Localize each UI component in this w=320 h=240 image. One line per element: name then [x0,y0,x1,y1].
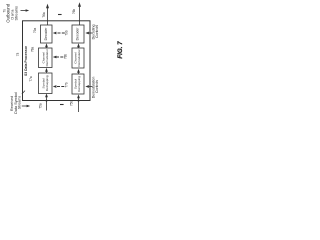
wire R1 output up [79,6,81,25]
wire decoding controls into R1 [89,32,93,34]
svg-text:Demodulator: Demodulator [45,49,49,66]
arrowhead input L [45,93,48,97]
wire demodulation controls into R3 [89,86,93,88]
svg-text:79a: 79a [33,28,37,34]
dashed wire R3 to L3 [57,86,64,88]
arrowhead input R [77,94,80,98]
dashed wire R1 to L1 [58,32,65,34]
svg-text:Demapping: Demapping [45,75,49,91]
block L1 Decoder [41,25,53,43]
arrowhead R2-R1 [77,43,80,47]
svg-text:Streams: Streams [13,6,18,21]
block R2 Channel Demodulator [72,48,84,68]
svg-text:73: 73 [16,53,20,57]
dashed wire R2 to L2 [56,56,63,58]
wire L1 output up [47,8,49,26]
svg-text:Streams: Streams [17,96,21,110]
svg-text:Decoder: Decoder [44,27,48,41]
svg-text:76a: 76a [42,12,46,18]
wire L3 to L2 [46,71,48,73]
wire input left branch [46,97,48,111]
dash ref bottom [60,104,64,106]
arrowhead controls R1 [85,32,89,35]
junction dot left input [46,100,48,102]
arrowhead controls R3 [85,85,89,88]
wire R3 to R2 [78,72,80,74]
arrowhead up L output [46,4,49,9]
svg-text:Controls: Controls [95,25,99,38]
svg-text:FIG. 7: FIG. 7 [117,41,124,59]
block R3 Symbol Demapping [72,74,84,94]
svg-text:Controls: Controls [95,80,99,93]
wire received arrow [22,105,27,107]
svg-text:Decoder: Decoder [76,27,80,41]
arrowhead into L2 [53,56,57,59]
svg-text:77b: 77b [65,82,69,88]
svg-text:Demodulator: Demodulator [77,49,81,66]
block L2 Channel Demodulator [39,48,53,68]
block R1 Decoder [72,25,84,43]
arrowhead R3-R2 [77,69,80,73]
arrowhead into L3 [53,85,57,88]
svg-text:79b: 79b [65,30,69,36]
outer processor box U0 [23,21,91,101]
tick near received label [22,91,25,94]
wire L2 to L1 [46,47,48,48]
arrowhead up R output [78,2,81,7]
block L3 Symbol Demapping [39,73,53,94]
wire input right branch [78,98,80,112]
arrowhead L2-L1 [45,43,48,47]
wire R2 to R1 [78,47,80,48]
dash ref top [58,14,62,16]
arrowhead outbound [26,9,30,12]
wire outbound arrow [21,10,26,12]
svg-text:75a: 75a [39,103,43,109]
svg-text:77a: 77a [29,76,33,82]
junction dot right input [78,100,80,102]
arrowhead L3-L2 [45,68,48,72]
svg-text:76b: 76b [72,9,76,15]
svg-text:78b: 78b [64,54,68,60]
svg-text:75b: 75b [69,101,73,107]
arrowhead into L1 [53,32,57,35]
svg-text:S3 Data Processor: S3 Data Processor [24,45,28,76]
svg-text:78a: 78a [31,47,35,53]
arrowhead received [27,105,31,108]
svg-text:Demapping: Demapping [77,76,81,92]
